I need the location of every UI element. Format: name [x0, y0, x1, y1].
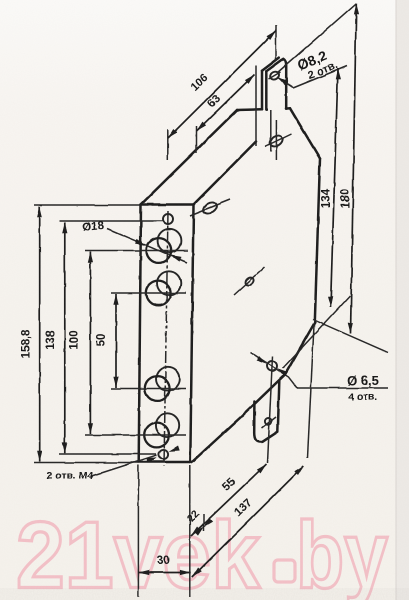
- ext 55 through lower holes: [268, 356, 273, 463]
- ext 63 left: [196, 126, 198, 153]
- dim 30: [138, 572, 191, 574]
- ext 137 right (below corner): [308, 325, 315, 458]
- plate top edge left of tab: [237, 108, 262, 111]
- ext 100 top: [85, 250, 188, 252]
- plate hole upper-right: [268, 133, 285, 148]
- big hole 3 back circle: [156, 367, 180, 391]
- ext under labels for 134 top: [293, 66, 347, 88]
- dim 134: [331, 69, 339, 308]
- dim 55 and 22: [191, 464, 267, 536]
- ext 100 bottom: [85, 434, 186, 436]
- top tab hole: [269, 70, 281, 81]
- ext 138 top: [59, 220, 163, 222]
- big hole 2 back circle: [157, 271, 181, 295]
- big hole 4 back circle: [155, 413, 179, 437]
- short vertical below tab: [270, 110, 272, 152]
- dim 158,8: [39, 207, 41, 462]
- dim 50: [115, 294, 117, 388]
- arrows at bottom M4 hole: [147, 455, 159, 463]
- dim 180: [351, 4, 357, 334]
- dim 63: [197, 75, 255, 132]
- big hole 3 front circle: [145, 376, 170, 401]
- plate centre mark: [244, 276, 255, 287]
- small hole bottom (M4): [159, 450, 168, 459]
- top tab top outer slant: [262, 58, 279, 71]
- arrows at 18 hole: [135, 239, 147, 248]
- leader to tab hole (8.2): [277, 77, 293, 88]
- small hole top (M4): [163, 214, 173, 224]
- plate hole lower (6.5): [267, 361, 277, 371]
- plate bottom edge: [192, 323, 315, 463]
- leader 18: [107, 229, 187, 263]
- ext 138 bottom: [59, 453, 157, 455]
- top tab right edge: [283, 59, 286, 109]
- big hole 4 front circle: [144, 423, 169, 448]
- ext 63 right below tab: [255, 66, 257, 147]
- arrows at 6.5 hole: [256, 356, 268, 366]
- big hole 2 front circle: [146, 281, 171, 306]
- big hole 1 back circle: [158, 229, 182, 253]
- big hole 1 front circle: [146, 238, 171, 263]
- top tab top inner slant: [266, 59, 283, 71]
- oblique ext for 180 top: [277, 3, 357, 73]
- vertical through plate upper hole: [275, 120, 277, 160]
- ext 30 left: [137, 465, 139, 597]
- plate top edge right of tab: [286, 107, 290, 110]
- top tab outer left edge: [261, 71, 264, 110]
- ext 180 bottom oblique: [313, 320, 388, 353]
- top tab hole slash: [269, 72, 281, 79]
- flange bottom edge: [139, 461, 191, 464]
- right scan band: [396, 0, 409, 600]
- lower tab outline: [254, 381, 279, 442]
- ext 158.8 bottom: [34, 462, 139, 464]
- plate hole upper-left: [202, 200, 219, 216]
- lower tab hole slash: [262, 417, 276, 428]
- leader 6.5: [250, 352, 297, 388]
- ext 50 top: [111, 292, 186, 294]
- flange centreline: [164, 211, 168, 466]
- ext 158.8 top: [34, 204, 141, 206]
- ext 106 right above tab: [275, 26, 277, 61]
- dim 106: [168, 31, 276, 139]
- dim 138: [64, 223, 66, 454]
- dim 100: [89, 252, 91, 435]
- dim 137: [192, 466, 303, 577]
- depth edge from flange top-left: [141, 110, 237, 205]
- ext 134 bottom oblique: [283, 296, 350, 368]
- underline 6.5 label: [297, 387, 388, 389]
- paper noise: [0, 0, 1, 1]
- depth edge from flange top-right: [194, 142, 257, 205]
- top tab inner left edge: [265, 71, 268, 110]
- ext front edge down: [189, 465, 191, 597]
- watermark 21vek.by: [16, 503, 388, 600]
- leader M4: [92, 455, 157, 476]
- lower tab hole: [265, 418, 272, 425]
- flange top edge: [141, 203, 194, 206]
- ext 22: [203, 514, 205, 531]
- ext 50 bottom: [111, 388, 186, 390]
- flange left edge: [139, 205, 141, 463]
- top right chamfer: [290, 108, 320, 158]
- plate right (back) edge: [315, 159, 320, 323]
- arrow at tab hole 8.2: [276, 75, 288, 85]
- flange right edge (bend line): [190, 205, 193, 463]
- ext 106 left: [167, 129, 169, 160]
